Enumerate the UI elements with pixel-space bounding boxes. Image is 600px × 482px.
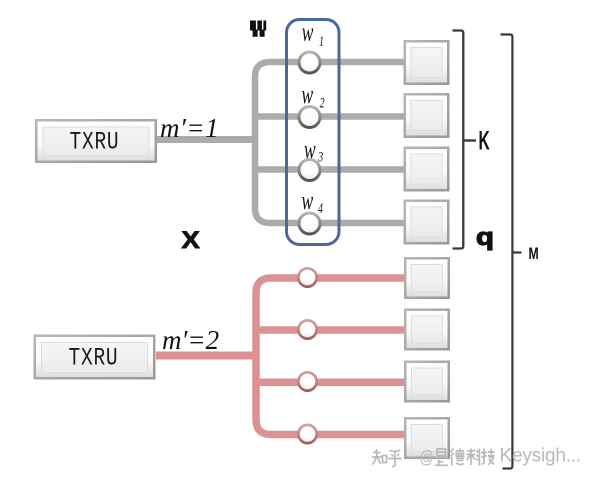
phase shifter circle w1	[298, 51, 322, 75]
wire gray branch 2	[255, 113, 404, 120]
svg-text:w1: w1	[302, 17, 324, 50]
wire pink bus with branch 5 and branch 8	[256, 278, 404, 435]
svg-text:m′=2: m′=2	[162, 325, 219, 355]
svg-text:TXRU: TXRU	[69, 343, 119, 372]
blue group rect around w1..w4	[287, 20, 340, 245]
label W matrix	[250, 21, 266, 37]
wire feed from TXRU m'=2	[156, 352, 259, 360]
svg-text:X: X	[182, 227, 201, 253]
phase shifter circle w2	[298, 105, 322, 129]
svg-text:q: q	[476, 223, 494, 250]
antenna element box 4	[404, 200, 450, 245]
svg-text:w3: w3	[304, 135, 323, 165]
phase shifter circle w3	[298, 158, 322, 182]
watermark CJK glyph 科	[467, 449, 481, 466]
wire gray branch 3	[255, 166, 404, 173]
phase shifter circle w4	[298, 212, 322, 236]
antenna element box 7	[404, 361, 450, 403]
wire gray bus with branch 1 and branch 4	[255, 62, 404, 223]
phase shifter circle row7	[297, 371, 318, 392]
svg-text:TXRU: TXRU	[70, 127, 120, 156]
wire pink branch 7	[256, 379, 404, 387]
svg-text:M: M	[529, 245, 539, 263]
wire pink branch 6	[256, 326, 404, 334]
svg-text:@: @	[420, 447, 434, 467]
watermark zhihu CJK glyph 知	[372, 449, 387, 465]
watermark zhihu CJK glyph 乎	[388, 450, 402, 467]
bracket M	[501, 35, 513, 469]
wire feed from TXRU m'=1	[157, 136, 258, 143]
svg-text:K: K	[479, 125, 490, 155]
watermark CJK glyph 技	[481, 449, 495, 465]
watermark CJK glyph 德	[451, 449, 465, 466]
bracket K tick	[463, 139, 476, 141]
antenna element box 3	[404, 147, 450, 192]
antenna element box 8	[404, 417, 450, 459]
svg-text:w2: w2	[302, 79, 325, 110]
svg-text:Keysigh...: Keysigh...	[500, 446, 581, 467]
antenna element box 5	[404, 257, 450, 299]
antenna element box 1	[404, 40, 450, 85]
TXRU box U1	[35, 119, 157, 163]
phase shifter circle row5	[297, 267, 318, 288]
TXRU box U2	[34, 335, 156, 380]
bracket M tick	[513, 251, 522, 253]
bracket K	[453, 31, 464, 249]
phase shifter circle row8	[297, 424, 318, 445]
svg-text:m′=1: m′=1	[160, 113, 219, 143]
watermark CJK glyph 是	[435, 449, 448, 465]
phase shifter circle row6	[297, 319, 318, 340]
antenna element box 6	[404, 309, 450, 351]
svg-text:w4: w4	[302, 185, 323, 216]
antenna element box 2	[404, 93, 450, 138]
